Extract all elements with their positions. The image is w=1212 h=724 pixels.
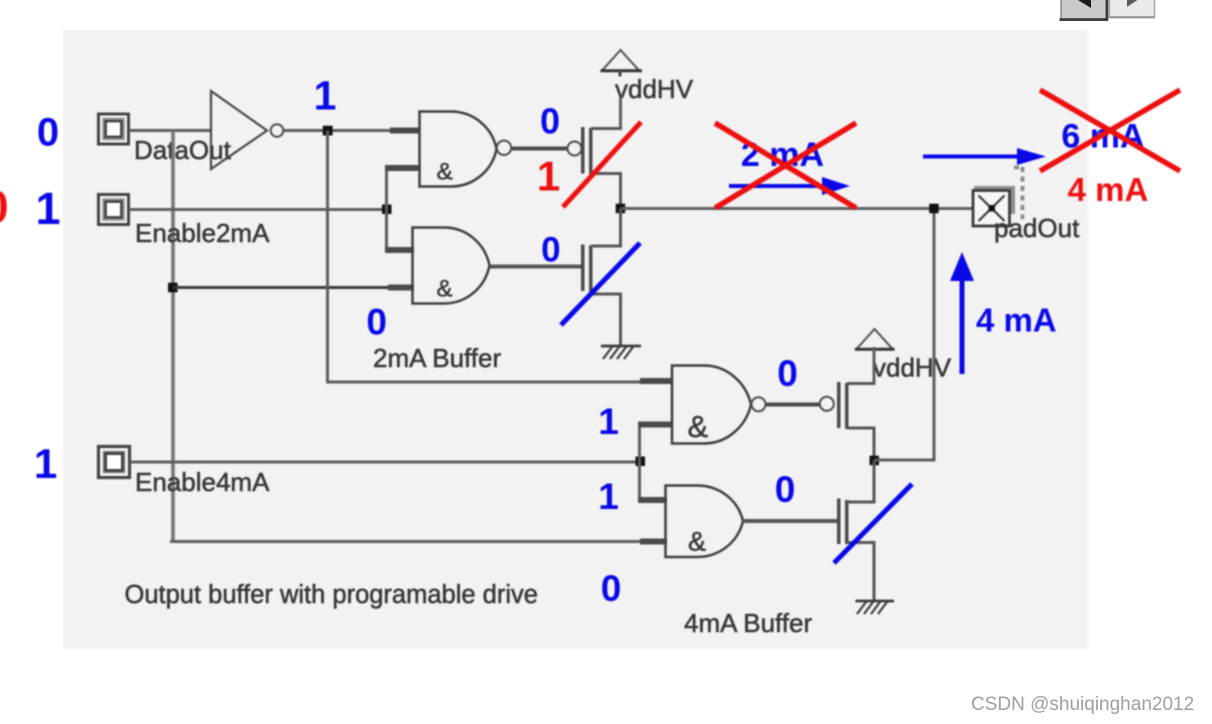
junction output net padOut bbox=[929, 204, 939, 214]
svg-text:Enable2mA: Enable2mA bbox=[135, 218, 270, 248]
ground 2mA bbox=[601, 346, 641, 359]
pin Enable2mA bbox=[99, 195, 129, 225]
red cross over 6 mA bbox=[1040, 90, 1180, 171]
wire inverter output riser to 4mA buffer bbox=[328, 131, 646, 383]
svg-text:vddHV: vddHV bbox=[615, 74, 694, 104]
svg-text:&: & bbox=[688, 527, 706, 557]
blue slash over nmos M4 bbox=[834, 484, 912, 563]
wire stub 4mA AND B input bbox=[640, 539, 667, 545]
svg-text:4 mA: 4 mA bbox=[1068, 171, 1149, 208]
svg-text:1: 1 bbox=[35, 183, 60, 234]
svg-text:1: 1 bbox=[598, 476, 619, 517]
svg-text:0: 0 bbox=[366, 302, 387, 343]
wire U1 output to pmos M1 gate bbox=[511, 147, 568, 151]
svg-text:&: & bbox=[437, 276, 453, 303]
wire Enable4mA riser down bbox=[638, 462, 641, 500]
power vddHV 2mA bbox=[601, 50, 694, 129]
wire stub 2mA AND A input bbox=[385, 247, 414, 253]
wire stub 2mA AND B input bbox=[388, 285, 414, 291]
wire DataOut bottom run to 4mA AND B input bbox=[170, 540, 642, 543]
red cross over 2 mA bbox=[715, 123, 856, 208]
wire DataOut branch to 2mA AND B input bbox=[173, 286, 390, 289]
pin padOut bbox=[973, 186, 1015, 226]
pin DataOut bbox=[99, 114, 129, 144]
wire output node to padOut bbox=[621, 207, 994, 210]
svg-text:0: 0 bbox=[0, 182, 9, 233]
wire stub 4mA NAND A input bbox=[640, 378, 673, 384]
svg-text:0: 0 bbox=[601, 568, 622, 609]
wire Enable2mA pin to junction bbox=[129, 208, 387, 211]
wire DataOut riser down bbox=[171, 131, 175, 542]
wire U2 output to nmos M2 gate bbox=[490, 265, 581, 269]
wire stub 2mA NAND B input bbox=[385, 165, 420, 171]
junction 2mA output node bbox=[616, 204, 626, 214]
nmos M2 2mA bbox=[581, 209, 622, 346]
svg-text:0: 0 bbox=[540, 101, 560, 142]
blue arrow 2mA current bbox=[729, 177, 850, 195]
wire U4 output to nmos M4 gate bbox=[743, 519, 837, 523]
junction Enable2mA branch bbox=[382, 205, 392, 215]
svg-text:CSDN @shuiqinghan2012: CSDN @shuiqinghan2012 bbox=[971, 694, 1194, 715]
svg-text:vddHV: vddHV bbox=[873, 353, 952, 383]
toolbar button forward bbox=[1109, 0, 1155, 17]
svg-text:0: 0 bbox=[541, 230, 560, 269]
wire stub 4mA AND A input bbox=[638, 497, 667, 503]
svg-text:0: 0 bbox=[777, 353, 798, 394]
pmos M1 2mA bbox=[568, 127, 623, 210]
inverter I1 bbox=[211, 91, 283, 169]
wire riser to output net bbox=[933, 209, 936, 461]
svg-text:&: & bbox=[688, 409, 709, 444]
pin Enable4mA bbox=[99, 447, 130, 478]
and gate U4 4mA bbox=[666, 486, 744, 558]
dashed wire annotation at padOut bbox=[1014, 167, 1023, 219]
junction 4mA output node bbox=[870, 456, 880, 466]
svg-text:Enable4mA: Enable4mA bbox=[135, 467, 270, 497]
junction Enable4mA branch bbox=[636, 457, 646, 467]
ground 4mA bbox=[856, 601, 895, 614]
svg-text:4 mA: 4 mA bbox=[976, 302, 1057, 339]
svg-text:1: 1 bbox=[598, 401, 619, 442]
blue arrow 4mA current up bbox=[950, 252, 974, 374]
junction DataOut branch bbox=[168, 283, 178, 293]
wire inverter output bbox=[284, 129, 421, 132]
wire Enable2mA riser bbox=[385, 168, 388, 250]
svg-text:1: 1 bbox=[34, 440, 57, 487]
wire Enable4mA pin to junction bbox=[130, 461, 641, 464]
wire DataOut pin to inverter bbox=[129, 129, 211, 132]
toolbar button back bbox=[1060, 0, 1109, 20]
svg-text:padOut: padOut bbox=[994, 213, 1080, 243]
red slash over pmos M1 bbox=[563, 122, 641, 207]
svg-text:0: 0 bbox=[37, 110, 59, 154]
pmos M3 4mA bbox=[820, 382, 876, 461]
svg-text:2mA Buffer: 2mA Buffer bbox=[373, 343, 501, 373]
junction inverter output node bbox=[323, 126, 333, 136]
nmos M4 4mA bbox=[837, 461, 876, 602]
blue slash over nmos M2 bbox=[561, 243, 640, 325]
nand gate U1 2mA bbox=[420, 112, 512, 187]
and gate U2 2mA bbox=[413, 228, 490, 304]
wire stub 2mA NAND A input bbox=[390, 128, 420, 134]
wire stub 4mA NAND B input bbox=[638, 422, 673, 428]
svg-text:0: 0 bbox=[775, 469, 796, 510]
svg-text:1: 1 bbox=[537, 152, 560, 199]
svg-text:1: 1 bbox=[314, 72, 337, 118]
wire U3 output to pmos M3 gate bbox=[765, 403, 823, 407]
svg-text:Output buffer with programable: Output buffer with programable drive bbox=[125, 581, 538, 609]
svg-text:&: & bbox=[437, 159, 453, 186]
svg-text:4mA Buffer: 4mA Buffer bbox=[684, 608, 812, 638]
wire Enable4mA riser up bbox=[638, 424, 641, 462]
wire 4mA node to riser bbox=[874, 459, 936, 462]
svg-text:DataOut: DataOut bbox=[134, 135, 232, 165]
power vddHV 4mA bbox=[855, 329, 952, 384]
blue arrow to padOut bbox=[923, 148, 1046, 165]
nand gate U3 4mA bbox=[672, 366, 766, 445]
